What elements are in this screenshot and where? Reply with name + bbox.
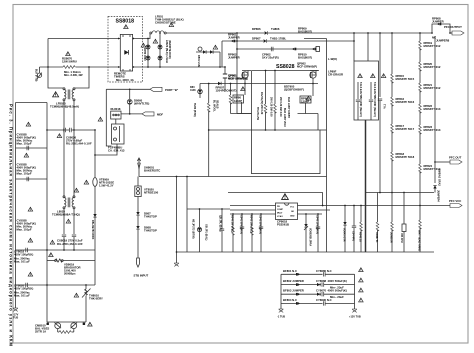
- warning triangle W28: [359, 278, 364, 282]
- sec comp 11: [390, 193, 394, 253]
- svg-text:TUB: TUB: [13, 317, 18, 320]
- svg-text:25TR 1A: 25TR 1A: [35, 330, 46, 334]
- wire under L8020 right: [73, 209, 75, 234]
- port B wire: [106, 88, 150, 90]
- jumper loop: [431, 23, 451, 34]
- svg-text:MOSFPF 5015: MOSFPF 5015: [396, 77, 415, 81]
- svg-text:MOSFP 5012: MOSFP 5012: [424, 65, 441, 69]
- bus B: [222, 40, 263, 42]
- warning triangle W1: [66, 52, 71, 56]
- mid return bus y192: [366, 192, 435, 194]
- warning triangle W6: [28, 207, 33, 211]
- warning triangle W25: [371, 74, 376, 78]
- vertical rail 368: [367, 33, 369, 61]
- sec comp 2: [240, 214, 245, 252]
- res RP817b: [391, 152, 415, 193]
- svg-text:JUMPER: JUMPER: [228, 56, 240, 60]
- wire under L8020 left: [63, 209, 65, 234]
- svg-text:CY8088: CY8088: [316, 279, 327, 283]
- svg-text:1204P: 1204P: [234, 99, 242, 103]
- gate drive line: [200, 83, 318, 85]
- svg-text:(QGBFGHBKF): (QGBFGHBKF): [284, 88, 304, 92]
- LED pair column 1: [146, 39, 150, 68]
- svg-text:C845 16V (BKA): C845 16V (BKA): [316, 215, 319, 234]
- svg-text:MDF: MDF: [157, 113, 163, 117]
- resistor RS8070: [63, 66, 75, 69]
- svg-text:BLK (FTB): BLK (FTB): [35, 69, 38, 82]
- svg-text:C84 4PU: C84 4PU: [352, 231, 355, 241]
- vertical 326: [326, 130, 328, 252]
- AC inlet connector: [37, 67, 42, 79]
- svg-text:TH4STOP: TH4STOP: [144, 215, 157, 219]
- ladder row 2: [281, 279, 355, 289]
- warning triangle W9: [66, 219, 71, 223]
- warning triangle W14: [88, 322, 93, 326]
- svg-text:AGRL 51: AGRL 51: [375, 232, 378, 243]
- svg-text:SS8028: SS8028: [276, 64, 295, 70]
- svg-text:R842 10K (P21): R842 10K (P21): [250, 215, 253, 233]
- res RP821: [419, 83, 441, 104]
- svg-text:THK-5ERY: THK-5ERY: [89, 297, 103, 301]
- wire choke right down: [73, 101, 75, 130]
- wire right vertical to choke: [75, 67, 90, 88]
- bold return rail: [365, 120, 367, 252]
- res RP820: [419, 62, 441, 83]
- wire relay chain: [95, 144, 117, 155]
- svg-text:JUMPER: JUMPER: [228, 36, 240, 40]
- svg-text:BF801 N.C: BF801 N.C: [283, 269, 297, 273]
- svg-text:PS2561B: PS2561B: [277, 223, 289, 227]
- node dot: [159, 66, 161, 68]
- wire QP801 down: [237, 78, 252, 113]
- svg-text:1204P: 1204P: [301, 100, 309, 104]
- node dot gate R: [312, 83, 314, 85]
- svg-text:WHT YEAB ARKE: WHT YEAB ARKE: [418, 230, 421, 251]
- warning triangle W21: [306, 96, 311, 100]
- svg-text:SEALB: SEALB: [216, 100, 219, 109]
- svg-text:JUMBOR: JUMBOR: [390, 232, 393, 243]
- svg-text:4148: 4148: [190, 89, 196, 92]
- warning triangle W22: [98, 117, 103, 121]
- connector on bus C: [292, 48, 296, 51]
- stub wire 2: [16, 178, 48, 180]
- warning triangle W10: [50, 240, 55, 244]
- svg-text:VCC: VCC: [290, 207, 295, 209]
- svg-text:VD845 GTR: VD845 GTR: [343, 228, 346, 242]
- wire stb top: [137, 177, 139, 187]
- svg-text:MCF-GRN60(P): MCF-GRN60(P): [297, 65, 317, 69]
- node dot: [305, 213, 307, 215]
- warning triangle W26: [381, 74, 386, 78]
- diode D807: [136, 212, 139, 215]
- svg-text:PFC OUT: PFC OUT: [449, 156, 462, 160]
- diode DP807: [264, 39, 355, 42]
- sec comp 10: [375, 193, 379, 253]
- cap on row 250: [26, 248, 28, 252]
- ladder row 1: [281, 269, 355, 277]
- res RP815: [391, 74, 415, 97]
- svg-text:MOSFP 5012: MOSFP 5012: [424, 86, 441, 90]
- big transformer box: [252, 130, 321, 174]
- wire QP802 down: [298, 78, 319, 130]
- PFC OUT branch: [435, 161, 450, 163]
- sec comp 8: [352, 205, 357, 252]
- vertical 251 top: [251, 71, 253, 131]
- svg-text:CHOKE/OTONE: CHOKE/OTONE: [155, 21, 176, 25]
- res RP817: [391, 124, 415, 152]
- node dot: [176, 176, 178, 178]
- warning triangle W5: [24, 153, 29, 157]
- wire y38 to 326: [304, 39, 327, 131]
- node dot: [147, 66, 149, 68]
- svg-text:MOSFP 5012: MOSFP 5012: [424, 44, 441, 48]
- PFC feedback rail: [433, 36, 436, 193]
- node dots ss8028: [265, 70, 276, 131]
- bus y211: [230, 210, 276, 214]
- svg-text:2000Bps: 2000Bps: [64, 272, 76, 276]
- bulk cap CP801: [223, 67, 227, 90]
- warning triangle W12: [49, 253, 54, 257]
- opto VT8020: [135, 186, 141, 197]
- wire stb 4: [137, 230, 139, 259]
- svg-text:L8020 (BLK) 1.5mH: L8020 (BLK) 1.5mH: [165, 40, 168, 63]
- sec comp 13: [418, 205, 422, 252]
- node dot: [224, 66, 226, 68]
- svg-text:12W 5WRU: 12W 5WRU: [62, 60, 77, 64]
- warning triangle W2: [53, 92, 59, 97]
- X-cap CX8026 row: [46, 128, 96, 132]
- svg-text:DP807: DP807: [252, 37, 261, 41]
- mosfet QP801: [242, 71, 251, 79]
- gate LED: [198, 84, 203, 99]
- res RP816: [391, 97, 415, 124]
- STB input arrow: [134, 258, 149, 278]
- bus y205 right: [298, 205, 451, 207]
- node dot: [236, 32, 238, 34]
- LED D8060: [127, 89, 132, 114]
- PORT B flag: [150, 87, 179, 92]
- svg-text:RL8018: RL8018: [111, 107, 121, 111]
- svg-text:MOSFP 5013: MOSFP 5013: [424, 128, 441, 132]
- svg-text:BF802 JUMPER: BF802 JUMPER: [283, 279, 304, 283]
- node dots sec: [232, 213, 319, 215]
- svg-text:MOSFPF 5017: MOSFPF 5017: [396, 127, 415, 131]
- bus y211 right: [298, 210, 331, 214]
- thermistor TH8010: [82, 285, 91, 322]
- wire bridge out to coil: [136, 33, 150, 39]
- left drop wire: [106, 89, 111, 146]
- PFC VCC flag: [449, 199, 462, 208]
- svg-text:+12V TUB: +12V TUB: [349, 316, 361, 319]
- svg-text:CR-GRASR: CR-GRASR: [328, 73, 343, 77]
- node dot: [159, 32, 161, 34]
- wire 74 down to L8020: [73, 130, 75, 197]
- warning triangle W4: [26, 122, 31, 126]
- svg-text:BF803 JUMPER: BF803 JUMPER: [283, 289, 304, 293]
- svg-text:MOSFPF 5016: MOSFPF 5016: [396, 100, 415, 104]
- svg-text:Max. 101 pF: Max. 101 pF: [14, 260, 30, 264]
- sec comp 3: [250, 214, 254, 252]
- bus y176: [139, 176, 327, 178]
- svg-text:PORT "B": PORT "B": [165, 88, 179, 92]
- svg-text:1.5W 41.2Y: 1.5W 41.2Y: [99, 184, 114, 188]
- vertical rail 392: [391, 33, 393, 74]
- diode D8L: [91, 214, 97, 240]
- bridge diode: [124, 50, 128, 55]
- sec comp 1: [231, 214, 235, 252]
- wire y130 gate to box: [209, 129, 252, 131]
- svg-text:STB INPUT: STB INPUT: [134, 274, 149, 278]
- sec comp 4: [259, 214, 264, 252]
- sense resistor v2: [274, 71, 277, 131]
- resistor RP806 box: [300, 96, 311, 104]
- stub wire 1: [16, 147, 48, 149]
- svg-text:Рис. 3. Принципиальная электри: Рис. 3. Принципиальная электрическая схе…: [9, 104, 14, 347]
- wire inrush row right: [76, 66, 118, 68]
- svg-text:Max. 101pF: Max. 101pF: [17, 228, 32, 232]
- svg-text:GND: GND: [290, 216, 295, 218]
- node dot: [208, 129, 210, 131]
- svg-text:JUMPER8: JUMPER8: [436, 39, 450, 43]
- warning triangle W27: [359, 268, 364, 272]
- sec comp 7: [343, 205, 347, 252]
- snubber col 2: [369, 82, 376, 120]
- SS8018 dashed box: [108, 17, 143, 83]
- vertical rail 420: [419, 33, 421, 41]
- SS8028 top rail: [252, 70, 319, 72]
- bottom return bus right: [366, 251, 435, 253]
- sensor cluster: [196, 47, 220, 67]
- wire to output: [450, 32, 452, 34]
- wire choke left down: [63, 101, 65, 130]
- warning triangle W3: [57, 134, 62, 138]
- svg-text:MULT: MULT: [277, 213, 283, 215]
- warning triangle W24: [358, 74, 363, 78]
- choke LF8020 coils: [63, 88, 75, 101]
- node dot: [230, 83, 232, 85]
- svg-text:R848 JU: R848 JU: [359, 232, 362, 242]
- svg-text:CA_034_413: CA_034_413: [108, 149, 125, 153]
- vertical 354: [353, 33, 355, 61]
- svg-text:GB JP1 (BAL): GB JP1 (BAL): [205, 224, 208, 241]
- warning triangle W13: [74, 293, 79, 297]
- PFC OUTPUT flag: [444, 25, 464, 35]
- res RP822: [419, 104, 441, 125]
- wire B left end down: [221, 41, 223, 67]
- cap CP802 on bus C: [271, 47, 273, 51]
- aux LED column: [197, 208, 201, 252]
- ladder left rail: [280, 274, 282, 309]
- svg-text:C841 50V (BKA): C841 50V (BKA): [240, 215, 243, 234]
- svg-text:BAKERSITC: BAKERSITC: [144, 169, 160, 173]
- transformer L8020: [63, 196, 75, 209]
- svg-text:Max. 101 pF: Max. 101 pF: [14, 294, 30, 298]
- svg-text:D801 U1N: D801 U1N: [197, 55, 200, 67]
- svg-text:PFC OUTPUT: PFC OUTPUT: [444, 25, 462, 29]
- warning triangle W23: [282, 194, 289, 200]
- svg-text:BAS(8007): BAS(8007): [298, 56, 312, 60]
- fusible VD8019: [47, 259, 95, 262]
- svg-text:BLR JABY 2016: BLR JABY 2016: [283, 108, 286, 127]
- svg-text:(WHVTLTB): (WHVTLTB): [134, 102, 149, 106]
- node dot: [129, 113, 131, 115]
- bus B connector: [231, 40, 235, 43]
- node dot: [236, 48, 238, 50]
- svg-text:R/L-2551,464-0.1UF: R/L-2551,464-0.1UF: [66, 142, 92, 146]
- node dots row250: [46, 249, 75, 251]
- svg-text:TCM80(9808)(48.5mH): TCM80(9808)(48.5mH): [50, 105, 79, 109]
- svg-text:TPA/TA 2W: TPA/TA 2W: [256, 107, 259, 121]
- wire stb 3: [137, 216, 139, 227]
- warning triangle W29: [359, 288, 364, 292]
- warning triangle W7: [28, 238, 33, 242]
- svg-text:VD8020B JPRA: VD8020B JPRA: [309, 228, 312, 246]
- resistor under pair: [58, 329, 74, 334]
- wire box top ext: [320, 129, 327, 131]
- svg-text:1204P(BOMKIT): 1204P(BOMKIT): [216, 89, 237, 93]
- row wire y285: [16, 284, 96, 286]
- sec comp 12: [400, 193, 406, 253]
- ladder row 3: [281, 289, 355, 299]
- warning triangle W8: [74, 188, 79, 192]
- aux sense sub-circuit: [186, 176, 230, 252]
- svg-text:CY8090 N.C: CY8090 N.C: [316, 298, 332, 302]
- warning triangle W18: [153, 39, 158, 43]
- varistor SH801: [137, 158, 140, 177]
- wire bridge lower out: [136, 66, 225, 68]
- node dot: [219, 66, 221, 68]
- cap on row 285: [26, 283, 28, 287]
- snubber box: [354, 61, 379, 120]
- svg-text:DP806: DP806: [252, 27, 261, 31]
- vertical 237: [236, 33, 238, 114]
- gate divider rail: [207, 84, 210, 177]
- svg-text:MOSFPF 5018: MOSFPF 5018: [396, 155, 415, 159]
- node dot: [353, 32, 355, 34]
- node dot B: [88, 66, 90, 68]
- left res of SS8028: [229, 84, 232, 114]
- ground column x176: [174, 177, 179, 267]
- node dot: [147, 38, 149, 40]
- res RP819: [419, 41, 441, 62]
- svg-text:2W 0.39 DM 6.09: 2W 0.39 DM 6.09: [270, 97, 273, 117]
- svg-text:1KV 22uF(R): 1KV 22uF(R): [262, 56, 279, 60]
- svg-text:Min. 400V, 4A: Min. 400V, 4A: [116, 78, 134, 82]
- svg-text:NTRSE100: NTRSE100: [144, 191, 159, 195]
- svg-text:SS8018: SS8018: [116, 19, 135, 25]
- node dot: [236, 40, 238, 42]
- svg-text:L-W(K): L-W(K): [328, 57, 337, 61]
- svg-text:BAS(8007): BAS(8007): [298, 30, 312, 34]
- node dot: [129, 88, 131, 90]
- svg-text:CY8070: CY8070: [316, 289, 327, 293]
- svg-text:TH806: TH806: [271, 27, 280, 31]
- svg-text:JUMPER: JUMPER: [432, 20, 444, 24]
- diode D806 on bus A: [265, 31, 433, 34]
- diode D808: [136, 226, 139, 229]
- warning triangle W7b: [28, 272, 33, 276]
- svg-text:BL WOOL: BL WOOL: [213, 100, 216, 112]
- warning triangle W16: [169, 23, 174, 27]
- warning triangle W20: [241, 87, 246, 91]
- sec comp 9: [359, 205, 363, 252]
- svg-text:TH80 (BTR): TH80 (BTR): [193, 103, 196, 117]
- ground ladder left: [277, 309, 285, 319]
- svg-text:C843 50V (BKA): C843 50V (BKA): [259, 215, 262, 234]
- row wire y250: [16, 249, 96, 251]
- bus C end connector: [312, 47, 320, 52]
- relay body 2: [112, 119, 125, 144]
- mosfet QP802: [310, 71, 319, 79]
- warning triangle W15: [84, 180, 89, 184]
- svg-text:-1 TUB: -1 TUB: [277, 316, 285, 319]
- wire stb 2: [137, 197, 139, 213]
- ladder row 4: [281, 298, 355, 306]
- gate diode: [218, 82, 221, 85]
- ladder right rail: [354, 274, 356, 309]
- svg-text:400V 500uF(K): 400V 500uF(K): [328, 289, 347, 293]
- node dot gate L: [244, 83, 246, 85]
- relay RL8018: [111, 111, 121, 119]
- bridge body: [120, 34, 132, 71]
- ground G1: [13, 308, 19, 320]
- svg-text:R/L-2551,464-0.1UF: R/L-2551,464-0.1UF: [57, 242, 83, 246]
- X-caps CX8019: [62, 235, 76, 250]
- svg-text:400V 500uF(K): 400V 500uF(K): [328, 279, 347, 283]
- MDF wire: [121, 113, 142, 115]
- svg-text:Min-. 23uF: Min-. 23uF: [330, 295, 344, 299]
- sec zener: [304, 214, 308, 252]
- T7A cap: [378, 99, 386, 193]
- cap CY8038b: [27, 177, 29, 181]
- res RP824: [419, 164, 441, 206]
- svg-text:COMP: COMP: [277, 209, 284, 211]
- svg-text:RA/TA(7R) 2W 0.39: RA/TA(7R) 2W 0.39: [260, 92, 263, 115]
- cap CY8038: [27, 146, 29, 150]
- left long rail x47: [46, 103, 48, 323]
- snubber col 1: [356, 82, 362, 120]
- bottom bus y250: [177, 251, 366, 253]
- opto feedback loop: [228, 193, 323, 207]
- svg-text:CY8080 N.C: CY8080 N.C: [316, 269, 332, 273]
- rail tap top: [16, 102, 48, 104]
- node dots bus A: [367, 32, 421, 34]
- svg-text:HE JP273 (BTW): HE JP273 (BTW): [192, 219, 195, 239]
- res RP823: [419, 125, 441, 164]
- top bus A: [166, 32, 264, 34]
- svg-text:D8L/4E7B 04003: D8L/4E7B 04003: [91, 220, 94, 240]
- wire 64 down to L8020: [63, 130, 65, 197]
- node dots row285: [46, 284, 87, 286]
- bus C: [237, 48, 316, 50]
- wire L-N top: [48, 38, 117, 40]
- bus y205: [230, 205, 276, 207]
- svg-text:THB1-1788L: THB1-1788L: [270, 37, 286, 41]
- svg-text:TH4STOP: TH4STOP: [144, 229, 157, 233]
- PFC coil L801: [150, 31, 166, 34]
- wire inrush left vertical: [48, 39, 64, 89]
- svg-text:JUMPER4: JUMPER4: [437, 190, 440, 202]
- svg-text:DP80 450V: DP80 450V: [143, 48, 146, 61]
- svg-text:T7A: T7A: [383, 104, 386, 109]
- svg-text:TCM80(9698A-T1HQ): TCM80(9698A-T1HQ): [52, 213, 80, 217]
- svg-text:2W 0.39 DM 6.09: 2W 0.39 DM 6.09: [279, 97, 282, 117]
- svg-text:BF804 N.C: BF804 N.C: [283, 298, 297, 302]
- svg-text:DLR JABY 10KBY: DLR JABY 10KBY: [287, 97, 290, 119]
- svg-text:R840 2W (P21): R840 2W (P21): [231, 215, 234, 232]
- node dots y192: [379, 192, 405, 194]
- svg-text:KB 4PU: KB 4PU: [400, 234, 403, 243]
